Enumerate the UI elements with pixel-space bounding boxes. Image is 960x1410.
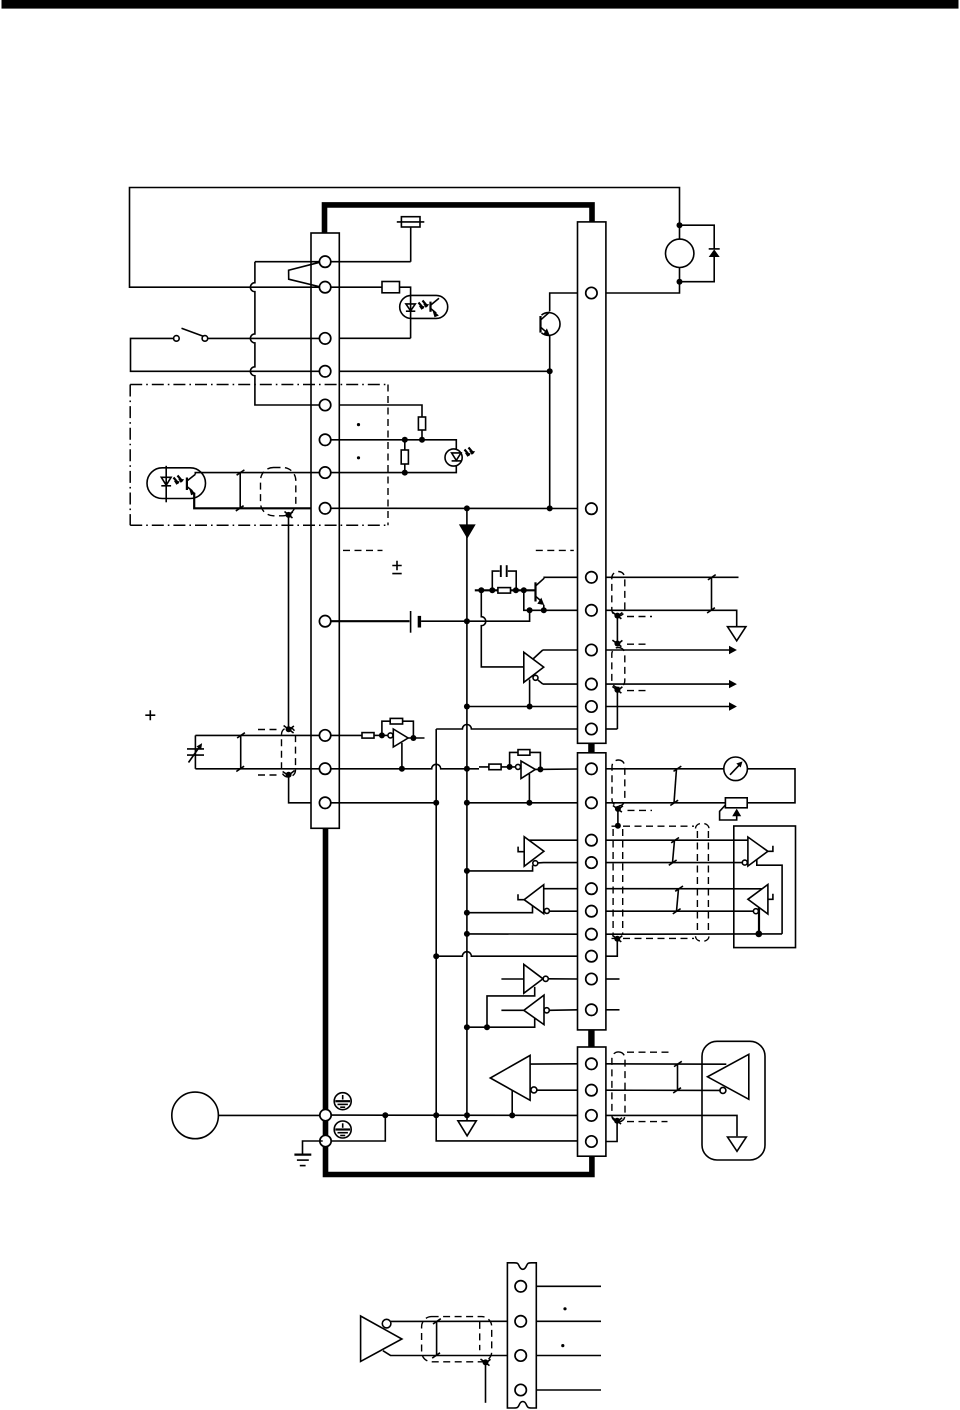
controller box (line receivers) bbox=[734, 826, 796, 948]
wire base row bbox=[475, 589, 536, 591]
op-amp U1 input wire from terminal10 bbox=[331, 734, 362, 736]
twisted-pair bracket rows 888/911 bbox=[673, 886, 683, 914]
meter M1 (speed meter) bbox=[724, 757, 748, 781]
wire R7 to U2 bbox=[479, 766, 516, 768]
node vertical466 top bbox=[464, 505, 470, 511]
cable shield pill rows 577/610 bbox=[612, 572, 652, 619]
pulse strip (bottom figure) bbox=[507, 1263, 536, 1408]
resistor R3 (parallel) bbox=[401, 440, 408, 473]
wire row 1115 right (to encoder ground) bbox=[606, 1115, 737, 1136]
buffer B1 (speed command) bbox=[524, 650, 544, 684]
connector joint TB3-TB4 bbox=[588, 1030, 594, 1047]
wire row 706 right with arrow bbox=[606, 702, 737, 710]
shield link wire bbox=[616, 616, 618, 644]
photocoupler PC2 (in dash-dot box) bbox=[147, 466, 206, 503]
resistor R1 (terminal2 series) bbox=[382, 282, 400, 293]
cable shield (pulse pair) bbox=[422, 1317, 492, 1366]
node U1 output bbox=[410, 735, 416, 741]
shield drain to terminal row 729 bbox=[616, 690, 618, 729]
resistor R7 (U2 input) bbox=[489, 764, 501, 770]
wire row 1064 left bbox=[530, 1063, 577, 1065]
pulse strip terminals bbox=[515, 1281, 526, 1396]
wire U1 output stub bbox=[408, 737, 424, 739]
resistor R4 (base) bbox=[498, 588, 511, 594]
node row912 bbox=[464, 910, 470, 916]
shield drain to terminal row 1141 bbox=[606, 1121, 617, 1142]
chassis ground stub bbox=[466, 1115, 468, 1120]
cable shield (encoder cable) bbox=[612, 1052, 669, 1124]
node row956 vertical436 bbox=[433, 953, 439, 959]
feedback resistor R8 bbox=[510, 750, 541, 770]
wire row 979 stub right bbox=[606, 978, 620, 980]
relay coil RY (meter return) bbox=[725, 798, 747, 808]
bus terminal circle lower bbox=[320, 1135, 331, 1146]
vertical wire 436 bbox=[436, 729, 577, 1141]
node row706 buffer bbox=[527, 704, 533, 710]
thick power bus top bbox=[325, 205, 593, 233]
wire motor branch bbox=[606, 225, 714, 293]
separator dashed marks bbox=[343, 549, 574, 551]
TB1 terminals bbox=[319, 256, 330, 809]
terminal block TB1 (left strip) bbox=[311, 233, 339, 828]
switch S1 bbox=[174, 328, 208, 341]
terminal block TB4 (right strip section 3) bbox=[578, 1047, 606, 1156]
wire U2 common down bbox=[528, 774, 530, 803]
node R3 bottom bbox=[402, 470, 408, 476]
terminal block TB3 (right strip section 2) bbox=[578, 753, 606, 1030]
wire row 803 right bbox=[467, 802, 578, 804]
wire row 888 right bbox=[606, 888, 762, 890]
connector joint TB2-TB3 bbox=[588, 743, 594, 753]
resistor R2 (terminal5 to terminal6) bbox=[339, 405, 425, 440]
node R3 top bbox=[402, 437, 408, 443]
wire inverter commons bbox=[467, 987, 535, 1027]
cable shield (PC2 pair) bbox=[261, 468, 296, 519]
+ label bbox=[145, 710, 155, 720]
wire row 888 bbox=[544, 888, 578, 890]
twisted-pair bracket rows 840/862 bbox=[669, 838, 679, 866]
tiny dot marks (bottom figure) bbox=[563, 1307, 566, 1310]
LED D2 (drive input indicator) bbox=[445, 448, 475, 467]
wire row 610 right of strip to signal ground bbox=[606, 610, 737, 626]
resistor R5 (U1 input) bbox=[362, 733, 374, 739]
wire row 803 left bbox=[331, 802, 436, 804]
wire terminal8 row bbox=[331, 507, 578, 509]
node row934 bbox=[464, 931, 470, 937]
node row1115 c bbox=[464, 1112, 470, 1118]
signal ground (open triangle) bbox=[728, 627, 746, 641]
photocoupler PC1 (top) bbox=[400, 295, 448, 318]
PE symbol lower bbox=[334, 1121, 351, 1138]
node shield link bbox=[612, 640, 650, 647]
encoder signal ground bbox=[728, 1137, 747, 1151]
wire meter to coil loop bbox=[747, 769, 795, 803]
wire collector Q2 to terminal row 577 bbox=[544, 576, 577, 579]
wire row 577 right of strip bbox=[606, 576, 739, 578]
node U2 output bbox=[537, 766, 543, 772]
chassis ground (open triangle) bbox=[458, 1121, 476, 1136]
op-amp U1 bbox=[388, 729, 408, 747]
wire row 862 bbox=[538, 862, 578, 864]
node row803 vertical466 bbox=[464, 800, 470, 806]
wire row 1064 right bbox=[606, 1063, 726, 1065]
node motor top bbox=[677, 222, 683, 228]
line receiver U5 (in box, rows 840/862) bbox=[742, 837, 782, 934]
node inverters common a bbox=[484, 1024, 490, 1030]
wire switch loop bbox=[131, 338, 320, 371]
bus terminal circle upper bbox=[320, 1109, 331, 1120]
wire row 706 bbox=[467, 706, 578, 708]
wire R5 to U1 bbox=[374, 734, 388, 736]
twisted-pair bracket rows 1064/1090 bbox=[673, 1061, 682, 1093]
node row1115 b bbox=[433, 1112, 439, 1118]
transistor Q1 bbox=[541, 312, 561, 336]
wire B1 common to row 706 bbox=[529, 680, 531, 707]
wire terminal1 left bbox=[255, 261, 320, 263]
thick power bus bottom-left bbox=[326, 828, 592, 1174]
twisted-pair bracket (pulse pair) bbox=[432, 1319, 441, 1358]
wire motor to bus bbox=[218, 1114, 322, 1116]
wire row 934 left bbox=[467, 933, 578, 935]
node U2 input bbox=[507, 764, 513, 770]
battery BT1 bbox=[411, 611, 422, 633]
twisted-pair bracket (PC2 pair) bbox=[236, 470, 245, 511]
node box common bbox=[755, 931, 762, 938]
header bar bbox=[2, 0, 959, 9]
node motor bottom bbox=[677, 279, 683, 285]
node big shield top bbox=[615, 823, 621, 829]
wire row 1010 stub right bbox=[606, 1009, 620, 1011]
TB3 terminals bbox=[586, 763, 597, 1015]
earth ground wire bbox=[303, 1141, 323, 1154]
cable shield (pot pair) bbox=[258, 726, 296, 778]
line driver U6 (in box, rows 888/911) bbox=[748, 885, 773, 934]
wire row 862 right bbox=[606, 862, 742, 864]
jumper link terminals 1-2 bbox=[289, 262, 320, 286]
node U2 common bbox=[526, 800, 532, 806]
vertical link terminal1 to terminal5 bbox=[250, 262, 319, 405]
vertical wire 481 (base row to buffer input) bbox=[481, 590, 524, 667]
wire terminal7 row right bbox=[331, 466, 456, 473]
wire row 768 (hops over vertical436) bbox=[331, 764, 479, 769]
vertical wire 466 (0V rail) bbox=[466, 508, 468, 1115]
node inverters common b bbox=[464, 1024, 470, 1030]
shield link to big shield bbox=[617, 809, 619, 826]
inverter U4 (row 1010) bbox=[501, 995, 577, 1025]
shield drain to terminal12 bbox=[289, 775, 311, 803]
wire row 1090 right bbox=[606, 1089, 721, 1091]
TB4 terminals bbox=[586, 1058, 597, 1147]
wire battery to emitter node bbox=[421, 610, 529, 621]
node Q1 emitter / terminal4 bbox=[547, 368, 553, 374]
wire row 840 bbox=[528, 839, 577, 841]
encoder unit (rounded box) bbox=[702, 1041, 765, 1160]
wire PC2 collector to terminal7 bbox=[195, 473, 319, 475]
TB2 terminals bbox=[586, 287, 597, 734]
wire row 911 bbox=[549, 910, 577, 912]
terminal block TB2 (right strip section 1) bbox=[578, 222, 606, 743]
wire row 911 right bbox=[606, 910, 754, 912]
line receiver D4 (rows 888/911) bbox=[467, 885, 550, 914]
shield drain (pulse) bbox=[485, 1362, 487, 1402]
twisted-pair bracket (pot pair) bbox=[236, 733, 245, 772]
big line receiver U7 (rows 1064/1090) bbox=[490, 1055, 537, 1115]
wire battery row from terminal9 bbox=[331, 620, 410, 622]
node U7 common bbox=[509, 1112, 515, 1118]
tiny dot marks bbox=[357, 423, 360, 426]
wire U2 output to terminal row bbox=[535, 768, 577, 770]
node row706 left bbox=[464, 704, 470, 710]
twisted-pair bracket rows 577/610 bbox=[707, 575, 716, 613]
wire PC2 emitter to terminal8 bbox=[194, 493, 311, 509]
cable shield pill rows 650/684 bbox=[612, 648, 650, 694]
feedback resistor R6 bbox=[382, 718, 414, 738]
wire row 650 right with arrow bbox=[606, 646, 737, 654]
dash-dot enclosure (external device) bbox=[130, 385, 388, 526]
op-amp U2 bbox=[516, 761, 536, 779]
node row768 vertical466 bbox=[464, 766, 470, 772]
wire row 729 (hops over vertical466) bbox=[436, 725, 577, 730]
wire pot pair bbox=[195, 735, 319, 768]
node R2 bottom bbox=[419, 437, 425, 443]
adjuster arrow on coil bbox=[720, 805, 742, 820]
node row610 a bbox=[527, 607, 533, 613]
node base row c bbox=[513, 587, 519, 593]
wire row 684 right with arrow bbox=[606, 680, 737, 688]
wire row 1115 (ground row) bbox=[331, 1114, 577, 1116]
inverter U3 (row 979) bbox=[501, 964, 577, 993]
node U1 input bbox=[379, 732, 385, 738]
pulse driver U9 bbox=[361, 1316, 508, 1361]
capacitor C1 bbox=[492, 565, 516, 590]
node row803 vertical436 bbox=[433, 800, 439, 806]
pulse strip row stubs right bbox=[536, 1286, 601, 1390]
potentiometer RV1 bbox=[187, 735, 204, 768]
wire row 729 right to shield drain bbox=[606, 728, 618, 730]
wire R1 to PC1 LED bbox=[331, 287, 411, 338]
wire row 610 bbox=[524, 590, 578, 610]
node row871 bbox=[464, 868, 470, 874]
wire terminal6 row bbox=[331, 440, 456, 449]
plus-minus label bbox=[392, 561, 401, 574]
node battery / vertical466 bbox=[464, 618, 470, 624]
fuse F1 bbox=[397, 217, 425, 227]
node Q1 emitter bottom bbox=[547, 505, 553, 511]
wire row 769 right (to meter) bbox=[606, 768, 724, 770]
earth ground symbol bbox=[294, 1155, 311, 1166]
line driver D3 (rows 840/862) bbox=[467, 837, 544, 871]
node base row d bbox=[521, 587, 527, 593]
node row1115 a bbox=[382, 1112, 388, 1118]
diode D1 (flyback) bbox=[709, 249, 720, 257]
node base row a bbox=[478, 587, 484, 593]
wire row 840 right bbox=[606, 839, 748, 841]
shield drain wire down bbox=[288, 515, 290, 729]
wire row 803 right to coil bbox=[606, 802, 726, 804]
shield drain to terminal row 956 bbox=[606, 939, 617, 957]
wire U1 common down bbox=[401, 743, 403, 769]
wire row 956 (hops over vertical466) bbox=[436, 952, 577, 957]
wire row 684 bbox=[543, 683, 578, 685]
node base row b bbox=[489, 587, 495, 593]
wire row 934 right bbox=[606, 933, 782, 935]
twisted-pair bracket rows 769/803 bbox=[670, 766, 681, 805]
wire power loop top bbox=[130, 188, 680, 288]
encoder driver U8 bbox=[708, 1054, 749, 1099]
power-flow arrow (down) bbox=[459, 524, 476, 538]
wire emitter Q1 down bbox=[549, 336, 551, 508]
cable shield (encoder bundle, big dashed) bbox=[612, 823, 710, 942]
wire row 1090 left bbox=[537, 1089, 578, 1091]
wire fuse feed bbox=[331, 227, 411, 262]
cable shield pill rows 769/803 (meter pair) bbox=[612, 760, 652, 812]
transistor Q2 bbox=[536, 578, 545, 610]
motor/brake circle (top right) bbox=[666, 239, 694, 267]
wire frame link (lower circle to row1115) bbox=[331, 1115, 385, 1141]
wire collector Q1 bbox=[550, 293, 578, 311]
node row610 emitter bbox=[541, 607, 547, 613]
PE symbol upper bbox=[334, 1093, 351, 1110]
servomotor M bbox=[172, 1092, 219, 1139]
wire terminal4 row right bbox=[339, 370, 549, 372]
node U1 common bbox=[399, 766, 405, 772]
wire row 650 bbox=[543, 649, 578, 651]
